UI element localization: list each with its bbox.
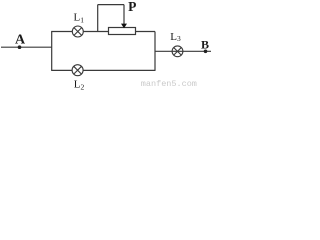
node B junction dot xyxy=(204,50,208,54)
svg-text:L1: L1 xyxy=(74,12,85,25)
lamp L1 xyxy=(72,26,83,37)
svg-text:L2: L2 xyxy=(74,79,85,92)
wire: right riser (junction between branches) xyxy=(154,32,156,71)
wire: slider loop horizontal top xyxy=(98,4,124,6)
wire: left riser (junction between branches) xyxy=(51,32,53,71)
wire: top branch left segment xyxy=(51,31,72,33)
rheostat P body xyxy=(109,28,136,35)
svg-text:P: P xyxy=(128,0,136,14)
wire: bottom branch right segment xyxy=(83,69,155,71)
lamp L2 xyxy=(72,65,83,76)
svg-text:L3: L3 xyxy=(170,31,181,43)
svg-text:A: A xyxy=(15,33,26,48)
rheostat wiper arrowhead xyxy=(121,24,127,29)
wire: top branch between L1 and rheostat xyxy=(83,31,108,33)
svg-text:manfen5.com: manfen5.com xyxy=(141,79,197,89)
wire: output lead to B xyxy=(155,50,211,52)
wire: bottom branch left segment xyxy=(51,69,72,71)
lamp L3 xyxy=(172,46,183,57)
wire: slider stem down to wiper xyxy=(123,5,125,25)
wire: slider loop vertical left xyxy=(97,5,99,32)
node A junction dot xyxy=(18,45,22,49)
wire: top branch right segment xyxy=(136,31,156,33)
wire: input lead from A xyxy=(1,46,52,48)
svg-text:B: B xyxy=(201,38,209,52)
